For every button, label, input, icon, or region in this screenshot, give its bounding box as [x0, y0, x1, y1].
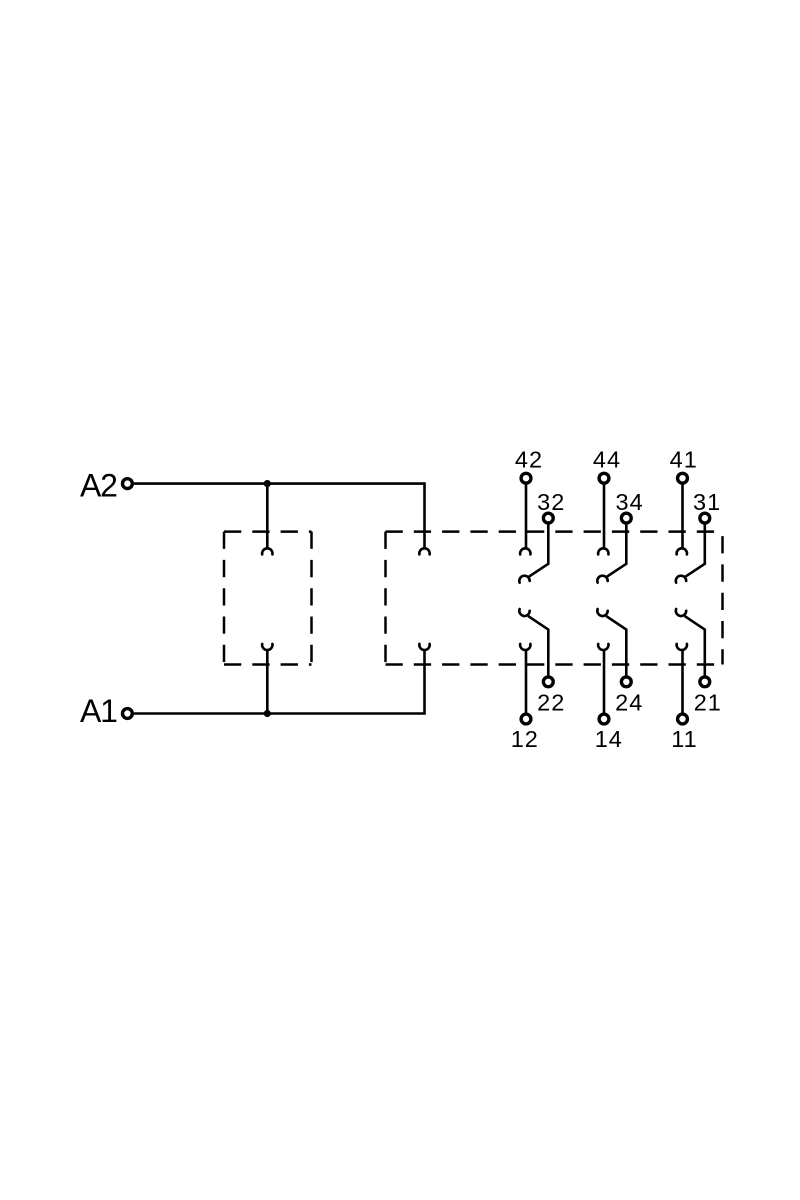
- module socket outline, bottom edge (dashed): [224, 663, 312, 666]
- socket contact 42: [520, 548, 530, 554]
- pin 22: [543, 677, 553, 687]
- svg-text:A2: A2: [80, 467, 117, 503]
- socket contact 41: [677, 548, 687, 554]
- terminal A1: [123, 709, 133, 719]
- wire pin 42 to socket: [525, 484, 528, 549]
- junction on A1 wire: [264, 710, 271, 717]
- wire pin 22 to socket: [528, 616, 548, 676]
- svg-text:11: 11: [671, 726, 697, 752]
- pin 21: [700, 677, 710, 687]
- socket contact 11: [677, 644, 687, 650]
- module socket outline, top edge (dashed): [224, 530, 312, 533]
- socket contact 44: [598, 548, 608, 554]
- wire pin 41 to socket: [681, 484, 684, 549]
- svg-text:A1: A1: [80, 693, 117, 729]
- socket contact 32: [518, 575, 529, 583]
- svg-text:22: 22: [537, 689, 565, 715]
- pin 44: [599, 473, 609, 483]
- pin 11: [678, 714, 688, 724]
- relay socket outline, bottom edge (dashed): [386, 663, 723, 666]
- svg-text:34: 34: [616, 489, 644, 515]
- wire pin 31 to socket: [685, 524, 705, 577]
- socket contact 31: [675, 575, 686, 583]
- wire pin 24 to socket: [606, 616, 626, 676]
- socket contact 21: [675, 609, 686, 617]
- svg-text:24: 24: [615, 689, 643, 715]
- socket contact 14: [598, 644, 608, 650]
- wire pin 11 to socket: [681, 649, 684, 713]
- svg-text:44: 44: [593, 447, 621, 473]
- relay socket outline, right edge (dashed): [721, 532, 724, 665]
- socket contact (module, bottom): [262, 644, 272, 650]
- junction on A2 wire: [264, 480, 271, 487]
- wire pin 34 to socket: [606, 524, 626, 577]
- wire pin 44 to socket: [603, 484, 606, 549]
- socket contact 12: [520, 644, 530, 650]
- socket contact 24: [596, 609, 607, 617]
- relay socket outline, left edge (dashed): [384, 532, 387, 665]
- module socket outline, left edge (dashed): [223, 532, 226, 665]
- socket contact 34: [596, 575, 607, 583]
- socket contact 22: [518, 609, 529, 617]
- wire pin 14 to socket: [603, 649, 606, 713]
- svg-text:42: 42: [515, 447, 543, 473]
- wire A2 to relay coil socket: [134, 484, 425, 550]
- module socket outline, right edge (dashed): [310, 532, 313, 665]
- svg-text:32: 32: [537, 489, 565, 515]
- pin 42: [521, 473, 531, 483]
- pin 34: [621, 513, 631, 523]
- socket contact (coil A1 side): [419, 644, 429, 650]
- pin 14: [599, 714, 609, 724]
- svg-text:31: 31: [693, 489, 721, 515]
- wire pin 32 to socket: [528, 524, 548, 577]
- svg-text:12: 12: [511, 726, 539, 752]
- svg-text:41: 41: [670, 447, 698, 473]
- svg-text:14: 14: [595, 726, 623, 752]
- pin 41: [678, 473, 688, 483]
- pin 24: [621, 677, 631, 687]
- socket contact (module, top): [262, 548, 272, 554]
- pin 12: [521, 714, 531, 724]
- terminal A2: [123, 479, 133, 489]
- relay socket outline, top edge (dashed): [386, 530, 723, 533]
- socket contact (coil A2 side): [419, 548, 429, 554]
- wire A2 branch to module socket: [266, 484, 269, 550]
- pin 32: [543, 513, 553, 523]
- svg-text:21: 21: [694, 689, 722, 715]
- pin 31: [700, 513, 710, 523]
- wire A1 to relay coil socket: [134, 649, 425, 713]
- wire pin 12 to socket: [525, 649, 528, 713]
- wire pin 21 to socket: [685, 616, 705, 676]
- wire A1 branch to module socket: [266, 649, 269, 713]
